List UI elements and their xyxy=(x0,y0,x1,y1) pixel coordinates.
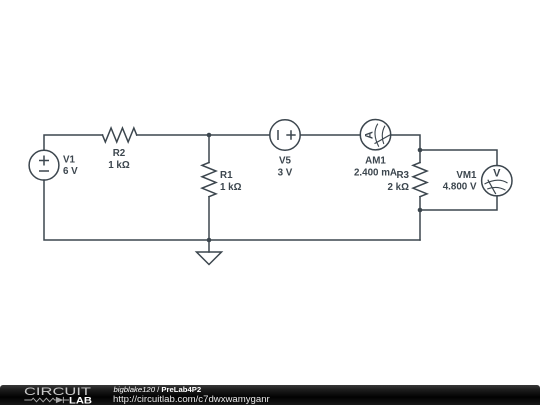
svg-text:1 kΩ: 1 kΩ xyxy=(220,182,242,193)
svg-text:6 V: 6 V xyxy=(63,166,78,177)
svg-text:2 kΩ: 2 kΩ xyxy=(388,182,410,193)
svg-text:1 kΩ: 1 kΩ xyxy=(108,160,130,171)
svg-text:3 V: 3 V xyxy=(278,167,293,178)
svg-text:http://circuitlab.com/c7dwxwam: http://circuitlab.com/c7dwxwamyganr xyxy=(113,394,271,405)
svg-text:4.800 V: 4.800 V xyxy=(443,182,477,193)
svg-text:R3: R3 xyxy=(396,170,409,181)
svg-text:2.400 mA: 2.400 mA xyxy=(354,167,397,178)
svg-text:AM1: AM1 xyxy=(365,156,386,167)
svg-text:LAB: LAB xyxy=(69,395,92,405)
svg-text:VM1: VM1 xyxy=(456,170,477,181)
svg-text:V5: V5 xyxy=(279,156,292,167)
svg-text:R1: R1 xyxy=(220,170,233,181)
svg-text:A: A xyxy=(364,131,376,139)
svg-text:V1: V1 xyxy=(63,155,76,166)
svg-text:bigblake120 / PreLab4P2: bigblake120 / PreLab4P2 xyxy=(114,385,202,394)
svg-text:R2: R2 xyxy=(113,148,126,159)
svg-text:V: V xyxy=(493,167,501,179)
